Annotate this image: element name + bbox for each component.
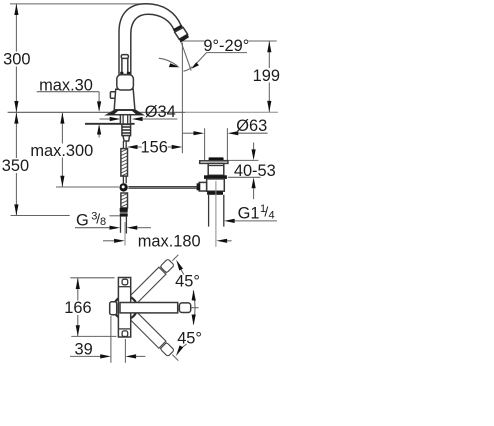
dimension 39 [70, 316, 145, 363]
faucet base plate dark left [107, 110, 119, 114]
wire swivel arc [193, 291, 195, 325]
wire horizontal rod thin left [56, 186, 119, 188]
svg-text:156: 156 [141, 139, 168, 157]
faucet G38 nut dark [120, 208, 128, 212]
top view: wall plate [118, 278, 130, 338]
dimension max.300 [30, 113, 93, 187]
drain lock nut [204, 175, 227, 179]
wire supply pipe [120, 217, 122, 233]
svg-text:166: 166 [64, 299, 91, 317]
label G 3/8 with leader [73, 209, 120, 230]
wire counter bottom line [85, 123, 135, 125]
faucet dome [117, 75, 134, 90]
label 45 upper with leader [175, 260, 200, 291]
dimension 199 [181, 41, 282, 112]
faucet shank taper [123, 136, 130, 141]
wire spout centerline ext [191, 307, 199, 309]
top view: body circle [114, 296, 137, 319]
svg-text:40-53: 40-53 [234, 162, 276, 180]
faucet nozzle joint band [173, 25, 183, 32]
svg-text:199: 199 [253, 67, 280, 85]
dimension 350 [2, 113, 70, 216]
top view: screw hole top [122, 279, 128, 285]
top view: phantom spout lower 45 [127, 310, 182, 365]
svg-text:max.30: max.30 [39, 76, 93, 94]
drain rod clamp [199, 182, 206, 191]
wire drain centerline [215, 181, 217, 247]
svg-text:Ø34: Ø34 [145, 103, 176, 121]
svg-text:39: 39 [74, 341, 92, 359]
drain clamp knob [197, 183, 201, 190]
dimension max.180 [103, 233, 232, 251]
wire adjust arc with arrow [159, 58, 178, 66]
svg-text:max.300: max.300 [30, 142, 93, 160]
wire stream vertical line [181, 43, 183, 154]
drain plug dark top [209, 157, 224, 160]
faucet rod base collars [120, 72, 123, 75]
label 45 lower with leader [176, 330, 202, 356]
dimension G38 pipe arrows [75, 226, 151, 230]
dimension 300 [3, 4, 30, 112]
label 9-29 degrees with leader [191, 37, 249, 69]
dimension 166 [64, 278, 117, 337]
svg-text:300: 300 [3, 51, 30, 69]
faucet lever rod [122, 58, 128, 75]
top view: screw hole bottom [122, 331, 128, 337]
svg-text:4: 4 [269, 210, 275, 222]
top view: real spout tube [120, 303, 178, 313]
dimension max.30 [37, 76, 101, 137]
wire pull rod middle [122, 176, 124, 183]
svg-text:max.180: max.180 [138, 233, 201, 251]
faucet body trapezoid [114, 89, 135, 110]
wire angle arc small [184, 67, 193, 72]
svg-text:G: G [76, 211, 89, 229]
rod ball joint [119, 183, 127, 191]
svg-text:350: 350 [2, 157, 29, 175]
faucet lever cap [121, 55, 128, 59]
wire top reference line [10, 3, 151, 5]
dimension Ø34 [100, 103, 178, 121]
drain flange [200, 161, 228, 164]
dimension 40-53 [224, 143, 275, 200]
top view: lever knob [110, 302, 117, 315]
faucet threaded rod lower hatched [121, 193, 128, 208]
drain body upper [208, 163, 224, 175]
svg-text:Ø63: Ø63 [236, 117, 267, 135]
svg-text:8: 8 [100, 216, 106, 228]
faucet threaded shank block [122, 124, 131, 135]
faucet side bump [110, 92, 116, 98]
wire stream angled line [181, 43, 191, 71]
wire counter top line [8, 111, 185, 113]
wire pull rod upper [122, 141, 124, 149]
svg-text:45°: 45° [177, 330, 202, 348]
wire horizontal rod to drain [128, 186, 196, 188]
faucet aerator [179, 34, 189, 42]
top view: phantom spout upper 45 [127, 251, 182, 306]
label G1 1/4 with leader [224, 203, 277, 223]
drain body lower [207, 179, 225, 191]
faucet base plate dark right [131, 110, 142, 114]
drain tailpipe [208, 195, 210, 227]
drain bottom collar [207, 191, 223, 195]
dimension Ø63 [182, 117, 267, 160]
top view: spout end cap [179, 303, 190, 313]
faucet spout body [119, 4, 181, 76]
faucet shank [120, 115, 130, 124]
svg-text:45°: 45° [175, 273, 200, 291]
faucet base plate [107, 110, 143, 114]
faucet threaded rod upper hatched [121, 149, 128, 177]
dimension 156 [127, 139, 183, 157]
faucet nozzle [175, 28, 188, 40]
svg-text:G1: G1 [238, 205, 260, 223]
